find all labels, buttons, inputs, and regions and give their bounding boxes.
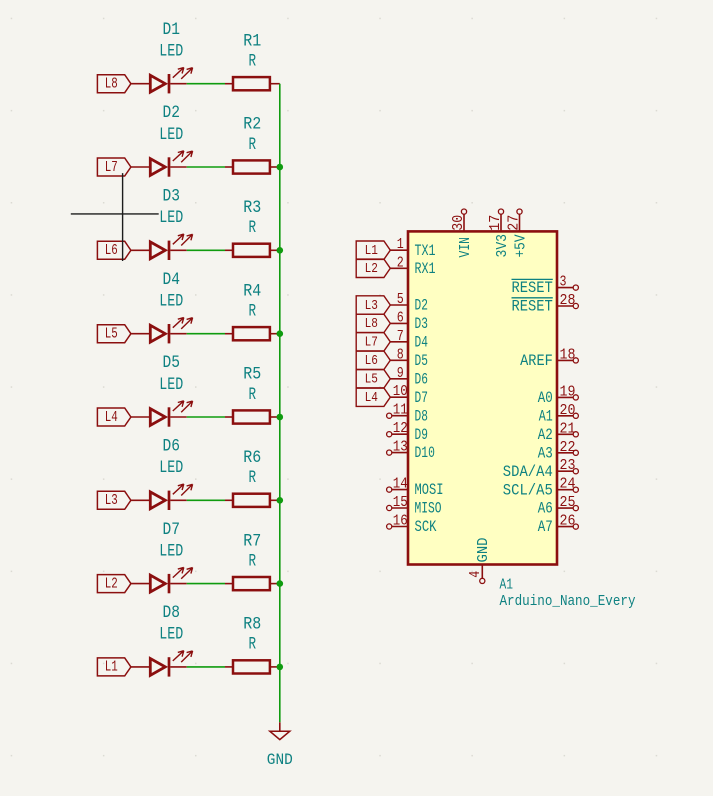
pin 19 A0 <box>538 384 579 407</box>
pin 16 SCK <box>387 514 437 537</box>
svg-text:MOSI: MOSI <box>415 481 444 499</box>
global label L1 <box>97 658 130 676</box>
svg-text:L8: L8 <box>105 77 118 93</box>
LED D1 <box>131 68 193 94</box>
resistor R1 <box>225 77 280 90</box>
svg-text:A1: A1 <box>539 407 553 425</box>
svg-text:D8: D8 <box>415 407 428 425</box>
svg-text:D4: D4 <box>163 270 181 290</box>
svg-text:L6: L6 <box>365 353 378 369</box>
svg-text:10: 10 <box>393 384 408 400</box>
svg-text:6: 6 <box>397 310 404 326</box>
crosshair cursor <box>71 173 159 261</box>
svg-text:D6: D6 <box>415 370 428 388</box>
svg-text:R: R <box>249 635 257 655</box>
global label L8 <box>97 75 130 93</box>
svg-text:30: 30 <box>451 215 467 231</box>
svg-text:R: R <box>249 218 257 238</box>
svg-text:GND: GND <box>267 751 293 769</box>
global label L7 <box>97 158 130 176</box>
wire D1 to R1 <box>187 83 225 85</box>
svg-text:D9: D9 <box>415 426 428 444</box>
pin 25 A6 <box>538 495 579 518</box>
svg-text:R6: R6 <box>243 448 261 468</box>
svg-text:R3: R3 <box>243 198 261 218</box>
svg-text:18: 18 <box>560 347 576 363</box>
pin 22 A3 <box>538 440 579 463</box>
svg-text:R: R <box>249 385 257 405</box>
junction at R5 output <box>277 414 284 421</box>
junction at R3 output <box>277 247 284 254</box>
svg-text:7: 7 <box>397 329 404 345</box>
svg-text:L3: L3 <box>105 493 118 509</box>
pin 4 GND <box>468 538 492 584</box>
pin 18 AREF <box>520 347 578 370</box>
svg-text:17: 17 <box>488 215 504 231</box>
pin 26 A7 <box>538 514 579 537</box>
svg-text:RESET: RESET <box>512 279 553 297</box>
global label L1 <box>356 241 390 259</box>
svg-text:D5: D5 <box>163 353 181 373</box>
global label L8 <box>356 314 390 332</box>
ground <box>267 722 293 769</box>
svg-text:28: 28 <box>560 293 576 309</box>
svg-text:D3: D3 <box>163 187 181 207</box>
global label L2 <box>356 259 390 277</box>
svg-text:L7: L7 <box>105 160 118 176</box>
svg-text:L8: L8 <box>365 316 378 332</box>
svg-text:D6: D6 <box>163 437 181 457</box>
svg-text:A0: A0 <box>538 389 553 407</box>
svg-text:D7: D7 <box>415 389 428 407</box>
svg-text:L6: L6 <box>105 243 118 259</box>
LED D3 <box>131 234 193 260</box>
svg-text:LED: LED <box>159 42 183 62</box>
svg-text:R: R <box>249 302 257 322</box>
global label L4 <box>97 408 130 426</box>
svg-text:+5V: +5V <box>513 234 529 257</box>
pin 2 RX1 <box>390 255 435 278</box>
resistor R6 <box>225 494 280 507</box>
svg-text:11: 11 <box>393 403 408 419</box>
svg-text:3V3: 3V3 <box>495 234 511 258</box>
svg-text:SDA/A4: SDA/A4 <box>503 463 553 481</box>
pin 3 RESET <box>512 275 579 298</box>
pin 7 D4 <box>390 329 428 352</box>
svg-text:9: 9 <box>397 366 404 382</box>
global label L5 <box>97 325 130 343</box>
svg-text:16: 16 <box>393 514 408 530</box>
svg-text:R7: R7 <box>243 531 261 551</box>
svg-text:R2: R2 <box>243 115 261 135</box>
svg-text:D7: D7 <box>163 520 181 540</box>
svg-text:2: 2 <box>397 255 404 271</box>
wire D2 to R2 <box>187 166 225 168</box>
pin 23 SDA/A4 <box>503 458 579 481</box>
pin 15 MISO <box>387 495 442 518</box>
svg-text:D10: D10 <box>415 444 435 462</box>
svg-text:A7: A7 <box>538 518 553 536</box>
global label L4 <box>356 388 390 406</box>
svg-text:LED: LED <box>159 625 183 645</box>
svg-text:L1: L1 <box>105 660 118 676</box>
wire D8 to R8 <box>187 666 225 668</box>
svg-text:Arduino_Nano_Every: Arduino_Nano_Every <box>500 593 636 610</box>
global label L3 <box>356 296 390 314</box>
svg-text:L3: L3 <box>365 298 378 314</box>
svg-text:8: 8 <box>397 347 404 363</box>
svg-text:D8: D8 <box>163 603 181 623</box>
svg-text:RESET: RESET <box>512 298 553 316</box>
pin 10 D7 <box>390 384 428 407</box>
svg-text:21: 21 <box>560 421 576 437</box>
svg-text:R: R <box>249 135 257 155</box>
resistor R5 <box>225 410 280 423</box>
svg-text:14: 14 <box>393 477 408 493</box>
wire D3 to R3 <box>187 249 225 251</box>
LED D5 <box>131 401 193 427</box>
pin 11 D8 <box>387 403 428 426</box>
svg-text:19: 19 <box>560 384 576 400</box>
pin 12 D9 <box>387 421 428 444</box>
svg-text:D3: D3 <box>415 315 428 333</box>
pin 6 D3 <box>390 310 428 333</box>
svg-text:D2: D2 <box>415 297 428 315</box>
svg-text:VIN: VIN <box>458 237 474 258</box>
pin 14 MOSI <box>387 477 444 500</box>
svg-text:D4: D4 <box>415 333 428 351</box>
pin 28 RESET <box>512 293 579 316</box>
global label L2 <box>97 575 130 593</box>
svg-text:23: 23 <box>560 458 576 474</box>
svg-text:LED: LED <box>159 292 183 312</box>
svg-text:A1: A1 <box>500 577 514 594</box>
svg-text:TX1: TX1 <box>415 242 436 260</box>
LED D7 <box>131 567 193 593</box>
svg-text:R8: R8 <box>243 615 261 635</box>
svg-text:L1: L1 <box>365 243 378 259</box>
svg-text:A6: A6 <box>538 500 553 518</box>
svg-text:20: 20 <box>560 403 576 419</box>
svg-text:L5: L5 <box>105 327 118 343</box>
pin 5 D2 <box>390 292 428 315</box>
svg-text:15: 15 <box>393 495 408 511</box>
junction at R6 output <box>277 497 284 504</box>
svg-text:A3: A3 <box>538 444 553 462</box>
LED D2 <box>131 151 193 177</box>
svg-text:R4: R4 <box>243 281 261 301</box>
svg-text:13: 13 <box>393 440 408 456</box>
svg-text:12: 12 <box>393 421 408 437</box>
svg-text:AREF: AREF <box>520 352 553 370</box>
pin 21 A2 <box>538 421 579 444</box>
pin 24 SCL/A5 <box>503 477 579 500</box>
resistor R4 <box>225 327 280 340</box>
svg-text:R: R <box>249 52 257 72</box>
global label L6 <box>97 241 130 259</box>
svg-text:26: 26 <box>560 514 576 530</box>
pin 8 D5 <box>390 347 428 370</box>
IC A1 Arduino_Nano_Every body <box>408 231 557 564</box>
LED D8 <box>131 651 193 677</box>
svg-text:LED: LED <box>159 375 183 395</box>
wire D7 to R7 <box>187 583 225 585</box>
svg-text:22: 22 <box>560 440 576 456</box>
svg-text:D2: D2 <box>163 103 181 123</box>
pin 17 3V3 <box>488 209 511 258</box>
svg-text:RX1: RX1 <box>415 260 436 278</box>
pin 30 VIN <box>451 209 474 258</box>
svg-text:1: 1 <box>397 237 404 253</box>
junction at R7 output <box>277 580 284 587</box>
svg-text:SCK: SCK <box>415 518 437 536</box>
svg-text:L2: L2 <box>365 261 378 277</box>
LED D4 <box>131 318 193 344</box>
resistor R7 <box>225 577 280 590</box>
resistor R2 <box>225 160 280 173</box>
junction at R2 output <box>277 164 284 171</box>
svg-text:L5: L5 <box>365 372 378 388</box>
svg-text:R: R <box>249 468 257 488</box>
svg-text:GND: GND <box>476 538 492 563</box>
svg-text:MISO: MISO <box>415 500 442 518</box>
pin 27 +5V <box>506 209 529 258</box>
global label L3 <box>97 491 130 509</box>
junction at R4 output <box>277 330 284 337</box>
svg-text:3: 3 <box>560 275 567 291</box>
resistor R3 <box>225 244 280 257</box>
svg-text:A2: A2 <box>538 426 553 444</box>
resistor R8 <box>225 660 280 673</box>
svg-text:L4: L4 <box>105 410 118 426</box>
LED D6 <box>131 484 193 510</box>
svg-text:25: 25 <box>560 495 576 511</box>
svg-text:LED: LED <box>159 208 183 228</box>
wire D5 to R5 <box>187 416 225 418</box>
pin 20 A1 <box>539 403 579 426</box>
svg-text:R: R <box>249 551 257 571</box>
svg-text:LED: LED <box>159 125 183 145</box>
svg-text:24: 24 <box>560 477 576 493</box>
svg-text:LED: LED <box>159 458 183 478</box>
wire D4 to R4 <box>187 333 225 335</box>
svg-text:5: 5 <box>397 292 404 308</box>
wire GND bus vertical <box>279 84 281 723</box>
svg-text:27: 27 <box>506 215 522 231</box>
svg-text:R1: R1 <box>243 31 261 51</box>
pin 1 TX1 <box>390 237 435 260</box>
svg-text:SCL/A5: SCL/A5 <box>503 481 553 499</box>
svg-text:LED: LED <box>159 541 183 561</box>
global label L6 <box>356 351 390 369</box>
svg-text:D5: D5 <box>415 352 428 370</box>
wire D6 to R6 <box>187 499 225 501</box>
global label L5 <box>356 370 390 388</box>
pin 13 D10 <box>387 440 435 463</box>
junction at R8 output <box>277 664 284 671</box>
global label L7 <box>356 333 390 351</box>
svg-text:L2: L2 <box>105 576 118 592</box>
svg-text:D1: D1 <box>163 20 181 40</box>
svg-text:L4: L4 <box>365 390 378 406</box>
svg-text:L7: L7 <box>365 335 378 351</box>
svg-text:4: 4 <box>468 571 484 578</box>
pin 9 D6 <box>390 366 428 389</box>
svg-text:R5: R5 <box>243 365 261 385</box>
